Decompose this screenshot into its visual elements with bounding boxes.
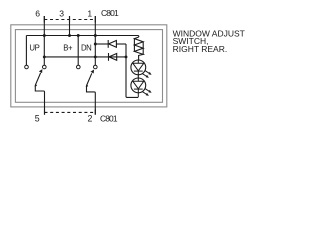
svg-text:UP: UP	[29, 44, 39, 53]
connector C801 top dashed line	[44, 19, 95, 21]
svg-text:5: 5	[35, 113, 40, 123]
svg-text:2: 2	[88, 113, 93, 123]
svg-text:C801: C801	[101, 8, 119, 18]
diode D1 wire	[95, 43, 108, 45]
wire pin 3 into box	[69, 16, 71, 36]
svg-text:1: 1	[87, 9, 92, 19]
junction dot pin6/top line	[43, 34, 46, 37]
resistor R (zigzag)	[134, 37, 143, 55]
wire pin 6 into box	[43, 16, 45, 36]
pin 5 tick	[44, 109, 46, 114]
wire arm2 pivot to pin 2	[87, 86, 96, 115]
divider B+/DN	[77, 36, 79, 66]
pin 1 tick	[94, 16, 96, 23]
junction dot pin1/top line	[94, 34, 97, 37]
contact circle c4	[94, 65, 98, 69]
switch arm 2 (DN wiper)	[86, 70, 94, 87]
LED2	[131, 78, 152, 97]
junction dot diode1 tap	[94, 43, 97, 46]
switch row bottom bus line	[44, 56, 126, 58]
pin 3 tick	[69, 16, 71, 23]
contact circle c3	[77, 65, 81, 69]
wire resistor to LED1	[138, 55, 140, 60]
diode D2 (on bus)	[109, 53, 117, 61]
junction dot bus/diode vertical	[125, 55, 128, 58]
LED1	[131, 60, 152, 78]
wire arm1 pivot to pin 5	[35, 85, 44, 114]
svg-text:3: 3	[59, 9, 64, 19]
junction dot bus/pin1	[94, 55, 97, 58]
outer component box	[11, 25, 167, 107]
svg-text:RIGHT REAR.: RIGHT REAR.	[173, 44, 228, 54]
component name text block	[173, 28, 245, 53]
connector C801 bottom dashed line	[45, 111, 96, 113]
svg-text:DN: DN	[81, 44, 91, 53]
wire D1 to vertical	[116, 43, 126, 45]
wire pin 1 into box, down to contact	[94, 16, 96, 65]
wire LED1 to LED2	[137, 75, 139, 78]
switch arm 1 (UP wiper)	[34, 69, 42, 86]
contact circle c2	[43, 65, 47, 69]
contact circle c1	[25, 65, 29, 69]
junction dot pin3/top line	[68, 34, 71, 37]
diode output vertical down to LED return	[126, 44, 138, 97]
svg-text:C801: C801	[100, 113, 118, 123]
inner component box	[15, 30, 162, 103]
svg-text:B+: B+	[63, 44, 73, 53]
pin 2 tick	[94, 109, 96, 114]
switch row left edge	[25, 36, 27, 66]
diode D1	[108, 40, 116, 48]
switch row top line extending to resistor	[26, 36, 138, 38]
junction dot divider top	[77, 34, 80, 37]
svg-text:6: 6	[35, 9, 40, 19]
divider UP/B+	[43, 36, 45, 66]
pin 6 tick	[43, 16, 45, 23]
junction dot bus/c2	[43, 55, 46, 58]
